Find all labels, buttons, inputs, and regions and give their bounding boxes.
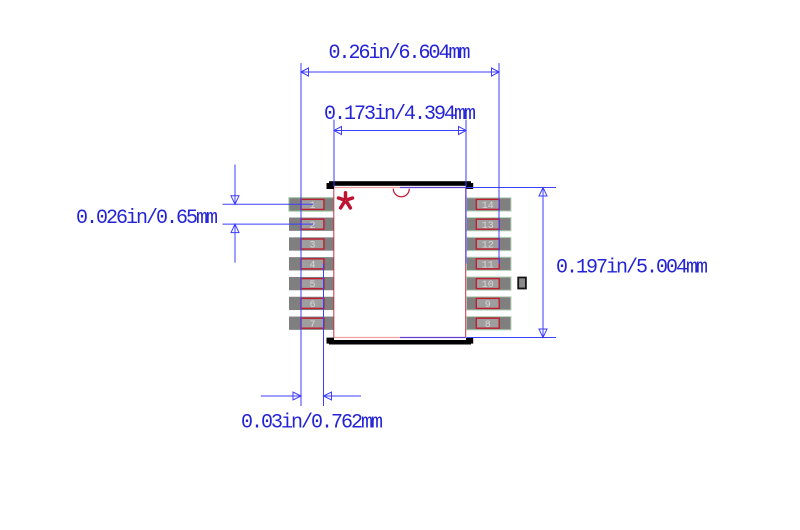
right dim up arrowhead: [539, 188, 547, 197]
bottom black bar: [329, 340, 471, 345]
pad P7: [301, 318, 324, 328]
right dim extension bottom: [467, 337, 556, 339]
extension line x=301 (pad outer left, full height): [300, 63, 302, 406]
pad P2: [301, 219, 324, 229]
svg-text:11: 11: [482, 260, 494, 271]
pad P4: [301, 259, 324, 269]
pitch dimension vertical line lower: [234, 224, 236, 263]
extension line x=466 (body right): [465, 120, 467, 264]
svg-text:4: 4: [310, 260, 316, 271]
pad P12: [476, 239, 499, 249]
extension line x=499 (pad outer right): [498, 63, 500, 264]
pitch extension line pin2: [223, 223, 314, 225]
pin lead 12: [467, 237, 512, 250]
top black bar: [329, 181, 471, 186]
svg-text:0.26in/6.604mm: 0.26in/6.604mm: [329, 42, 470, 65]
pin lead 5: [289, 277, 334, 290]
top dim right arrowhead: [492, 68, 500, 76]
pin lead 10: [467, 277, 512, 290]
svg-text:3: 3: [310, 241, 316, 252]
second dimension line 0.173in: [334, 130, 466, 132]
pin lead 14 (right): [467, 198, 512, 211]
2nd dim left arrowhead: [334, 127, 342, 135]
svg-text:2: 2: [310, 221, 316, 232]
bottom bar left tab: [327, 338, 335, 344]
pad P9: [476, 298, 499, 308]
svg-text:1: 1: [310, 201, 316, 212]
right dimension vertical line 0.197in: [542, 188, 544, 338]
pin lead 4: [289, 257, 334, 270]
svg-text:14: 14: [482, 201, 494, 212]
right dim down arrowhead: [539, 329, 547, 338]
right dim extension top: [467, 187, 556, 189]
top bar left tab: [327, 183, 335, 189]
pin lead 9: [467, 297, 512, 310]
svg-text:13: 13: [482, 221, 494, 232]
svg-text:9: 9: [485, 300, 491, 311]
body right edge: [465, 188, 467, 338]
pad P3: [301, 239, 324, 249]
svg-text:0.173in/4.394mm: 0.173in/4.394mm: [324, 103, 475, 126]
svg-text:10: 10: [482, 280, 494, 291]
pad P14: [476, 199, 499, 209]
body bottom edge left half (pink): [334, 337, 400, 339]
bottom dim left leader: [261, 395, 301, 397]
pitch dimension vertical line upper: [234, 165, 236, 205]
pad P8: [476, 318, 499, 328]
svg-text:12: 12: [482, 241, 494, 252]
svg-text:7: 7: [310, 320, 316, 331]
extension line x=334 (body left): [333, 120, 335, 188]
svg-text:6: 6: [310, 300, 316, 311]
pin lead 1 (left, green highlighted): [289, 198, 334, 211]
pin lead 3: [289, 237, 334, 250]
bottom dim extension x=323.5: [323, 264, 325, 407]
body left edge: [333, 188, 335, 338]
body fill: [334, 188, 465, 337]
body top edge right half (purple): [400, 187, 466, 189]
pin1 index notch (red semicircle): [393, 189, 409, 197]
pin lead 11: [467, 257, 512, 270]
pad P1: [301, 199, 324, 209]
top bar right tab: [466, 183, 473, 189]
2nd dim right arrowhead: [459, 127, 467, 135]
bottom bar right tab: [466, 338, 473, 344]
svg-text:0.03in/0.762mm: 0.03in/0.762mm: [241, 412, 382, 435]
pad P5: [301, 279, 324, 289]
body top edge left half (pink): [334, 187, 400, 189]
pin lead 7: [289, 317, 334, 330]
bottom dim right leader: [324, 395, 362, 397]
pin lead 6: [289, 297, 334, 310]
pitch dim down arrowhead: [231, 196, 239, 205]
pad P6: [301, 298, 324, 308]
pitch dim up arrowhead: [231, 224, 239, 233]
svg-text:0.026in/0.65mm: 0.026in/0.65mm: [76, 207, 217, 230]
pin lead 13: [467, 218, 512, 231]
top dim left arrowhead: [301, 68, 309, 76]
pin lead 2: [289, 218, 334, 231]
svg-text:0.197in/5.004mm: 0.197in/5.004mm: [556, 257, 707, 280]
dimension lines (blue): [223, 63, 557, 406]
svg-text:5: 5: [310, 280, 316, 291]
pitch extension line pin1: [223, 203, 314, 205]
body bottom edge right half (purple): [400, 337, 466, 339]
top dimension line 0.26in: [301, 71, 499, 73]
thermal/origin square right of pin 10: [518, 278, 526, 289]
pin lead 8: [467, 317, 512, 330]
pad P10: [476, 279, 499, 289]
svg-text:8: 8: [485, 320, 491, 331]
bottom dim left-pointing arrowhead: [324, 392, 332, 400]
bottom dim right-pointing arrowhead: [293, 392, 301, 400]
pad P13: [476, 219, 499, 229]
pad P11: [476, 259, 499, 269]
pin1 marker asterisk: [339, 193, 353, 208]
